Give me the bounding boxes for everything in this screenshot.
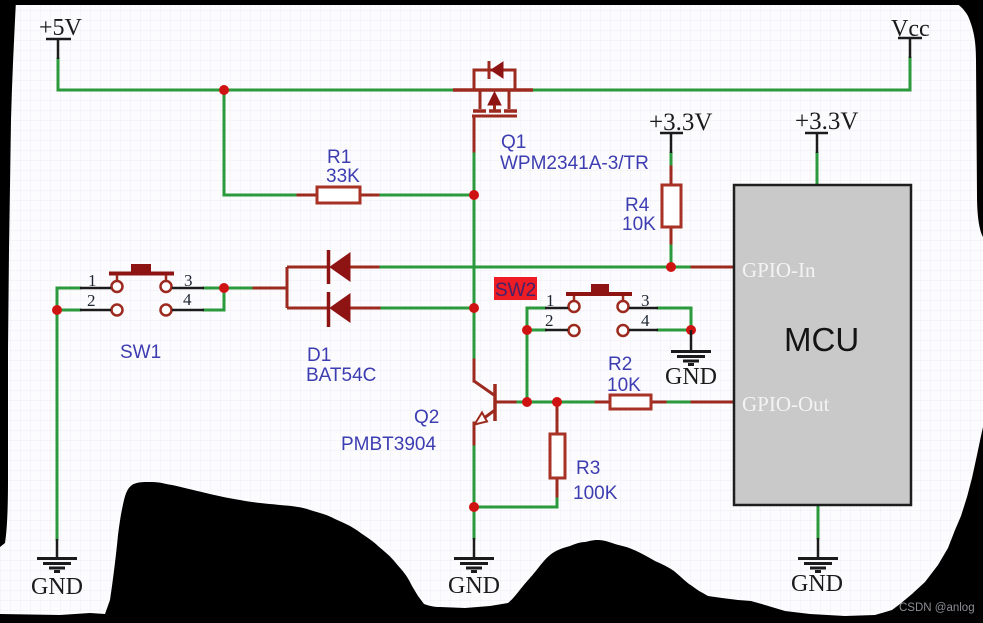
svg-text:3: 3 (184, 271, 193, 290)
pin stub Q2 emitter (473, 423, 476, 444)
D1 left join (286, 267, 289, 308)
node R4 / GPIO-In (666, 262, 676, 272)
node base A (522, 397, 532, 407)
Q2 emitter arrow (475, 413, 488, 425)
svg-text:2: 2 (87, 291, 96, 310)
Q1 source contact (479, 90, 482, 109)
wire top rail right of Q1 to Vcc (533, 58, 910, 90)
node SW2 right (686, 325, 696, 335)
wire SW1 left to GND (56, 310, 59, 539)
svg-text:MCU: MCU (784, 321, 859, 358)
Q1 substrate arrow (488, 92, 501, 105)
pin stub Q1 gate (473, 117, 476, 151)
pin stub R3 bottom (556, 478, 559, 496)
node base B / R3 (552, 397, 562, 407)
black mask bottom blob (0, 427, 983, 623)
power +3.3V symbol (R4) (660, 133, 683, 153)
svg-text:4: 4 (641, 311, 650, 330)
wire base node to R2 (515, 401, 596, 404)
pin stub MCU GPIO-Out (692, 401, 734, 404)
ground symbol SW2 (671, 330, 711, 365)
resistor R3 (550, 434, 565, 478)
switch SW1 (80, 264, 204, 316)
wire SW1 to D1 (224, 287, 254, 290)
D1 bottom triangle (330, 294, 350, 322)
diode D1 (dual, common cathode) (287, 250, 350, 327)
pin stub D1 top anode lead (350, 266, 378, 269)
svg-text:PMBT3904: PMBT3904 (341, 434, 436, 455)
pin stub R2 left (596, 401, 610, 404)
svg-text:100K: 100K (573, 483, 618, 504)
ground symbol center (454, 538, 494, 572)
svg-text:GND: GND (791, 571, 843, 597)
svg-text:4: 4 (183, 290, 192, 309)
svg-text:BAT54C: BAT54C (306, 365, 376, 386)
svg-text:33K: 33K (326, 166, 360, 187)
Q2 emitter diagonal (476, 410, 495, 424)
svg-text:Q2: Q2 (414, 407, 439, 428)
node SW2 left (522, 325, 532, 335)
pin stub Q2 base (497, 401, 515, 404)
wire MCU bottom to GND (817, 505, 820, 538)
node D1 / gate vertical (469, 303, 479, 313)
svg-text:GPIO-Out: GPIO-Out (742, 392, 830, 416)
svg-text:SW1: SW1 (120, 342, 161, 363)
svg-text:SW2: SW2 (495, 280, 536, 301)
wire SW1 right pins join (204, 288, 224, 310)
pin stub R4 top (670, 167, 673, 185)
SW2 contacts (569, 301, 580, 312)
Q1 body diode bar (488, 61, 491, 79)
svg-text:+3.3V: +3.3V (795, 108, 858, 135)
wire SW2 left to base node (526, 330, 529, 402)
SW2 pin 1 lead (545, 307, 568, 310)
node emitter (469, 502, 479, 512)
resistor R4 (662, 185, 681, 227)
SW1 stems (117, 275, 166, 282)
power +5V symbol (46, 39, 71, 59)
SW2 pin 4 lead (629, 329, 658, 332)
svg-text:CSDN @anlog: CSDN @anlog (899, 602, 975, 614)
wire R4 to GPIO-In junction (670, 243, 673, 267)
Q2 base bar (493, 384, 497, 421)
power +3.3V symbol (MCU) (805, 133, 828, 153)
SW2 pin 2 lead (545, 329, 568, 332)
pin stub R2 right (651, 401, 665, 404)
ground symbol right (MCU) (798, 538, 838, 572)
resistor R1 (317, 187, 360, 203)
svg-text:D1: D1 (307, 345, 331, 366)
pin stub R1 right (360, 194, 378, 197)
transistor Q2 (474, 381, 495, 425)
node R1 / gate (469, 190, 479, 200)
MOSFET Q1 (453, 61, 533, 116)
pin stub MCU GPIO-In (692, 266, 734, 269)
label SW2 highlighted (494, 277, 537, 300)
svg-text:+3.3V: +3.3V (649, 109, 712, 136)
Q1 drain contact (508, 90, 511, 109)
svg-text:R1: R1 (327, 147, 351, 168)
wire SW2 right pins join (658, 308, 691, 330)
wire emitter to node (473, 444, 476, 507)
wire SW1 left pins join (57, 288, 80, 310)
svg-text:1: 1 (88, 271, 97, 290)
svg-text:10K: 10K (607, 375, 641, 396)
node top rail / R1 branch (219, 85, 229, 95)
wire +3.3V to MCU top (816, 153, 819, 185)
switch SW2 (545, 284, 658, 336)
svg-text:1: 1 (546, 291, 555, 310)
pin stub R3 top (556, 404, 559, 434)
svg-text:R3: R3 (576, 458, 600, 479)
svg-text:10K: 10K (622, 214, 656, 235)
Q1 body diode triangle (491, 62, 503, 78)
Q1 gate bar (472, 115, 517, 118)
svg-text:Vcc: Vcc (891, 16, 930, 42)
svg-text:GND: GND (665, 364, 717, 390)
SW1 pin 4 lead (172, 309, 204, 312)
pin stub Q2 collector (473, 360, 476, 381)
svg-text:+5V: +5V (39, 15, 83, 41)
black mask left border (0, 0, 16, 547)
pin stub R1 left (298, 194, 317, 197)
wire node at (224,90) down to R1 (224, 90, 298, 195)
power Vcc symbol (898, 38, 922, 58)
node SW1 left (52, 305, 62, 315)
D1 bottom cathode bar (327, 292, 331, 327)
SW1 pin 1 lead (80, 287, 111, 290)
node SW1 right (219, 283, 229, 293)
wire emitter node to GND (473, 507, 476, 538)
wire gate vertical net (473, 151, 476, 360)
wire SW2 left pins join (527, 308, 545, 330)
svg-text:GND: GND (448, 573, 500, 599)
wire R3 bottom to emitter node (474, 496, 557, 507)
pin stub D1 common (254, 287, 287, 290)
Q1 channel ticks (473, 109, 517, 113)
wire +5V to top rail (58, 59, 454, 90)
transistor Q1 body (453, 88, 533, 92)
wire D1 lower cathode to vertical (379, 307, 474, 310)
wire R4 bottom segment (670, 153, 673, 167)
resistor R2 (610, 395, 651, 409)
SW2 button cap (566, 292, 632, 296)
pin stub D1 bottom anode lead (350, 307, 379, 310)
SW1 contacts (112, 281, 123, 292)
svg-text:WPM2341A-3/TR: WPM2341A-3/TR (500, 153, 649, 174)
wire GPIO-In net (378, 266, 692, 269)
black mask top right corner (950, 0, 983, 237)
pin stub R4 bottom (670, 227, 673, 243)
SW1 button cap (109, 272, 174, 276)
svg-text:Q1: Q1 (501, 132, 526, 153)
SW2 pin 3 lead (629, 307, 658, 310)
svg-text:R4: R4 (625, 195, 650, 216)
SW2 stems (574, 296, 623, 301)
Q2 collector diagonal (474, 381, 494, 395)
svg-text:2: 2 (545, 311, 554, 330)
D1 top cathode bar (327, 250, 331, 284)
svg-text:GND: GND (31, 574, 83, 600)
SW1 pin 2 lead (80, 309, 111, 312)
D1 top triangle (330, 253, 350, 281)
SW1 pin 3 lead (172, 287, 204, 290)
svg-text:GPIO-In: GPIO-In (742, 258, 816, 282)
MCU block (734, 185, 911, 505)
wire R1 right to gate node (378, 194, 474, 197)
ground symbol left (37, 539, 77, 572)
svg-text:R2: R2 (608, 354, 632, 375)
svg-text:3: 3 (641, 291, 650, 310)
wire R2 right to MCU pin (665, 401, 692, 404)
black mask top strip (0, 0, 983, 5)
